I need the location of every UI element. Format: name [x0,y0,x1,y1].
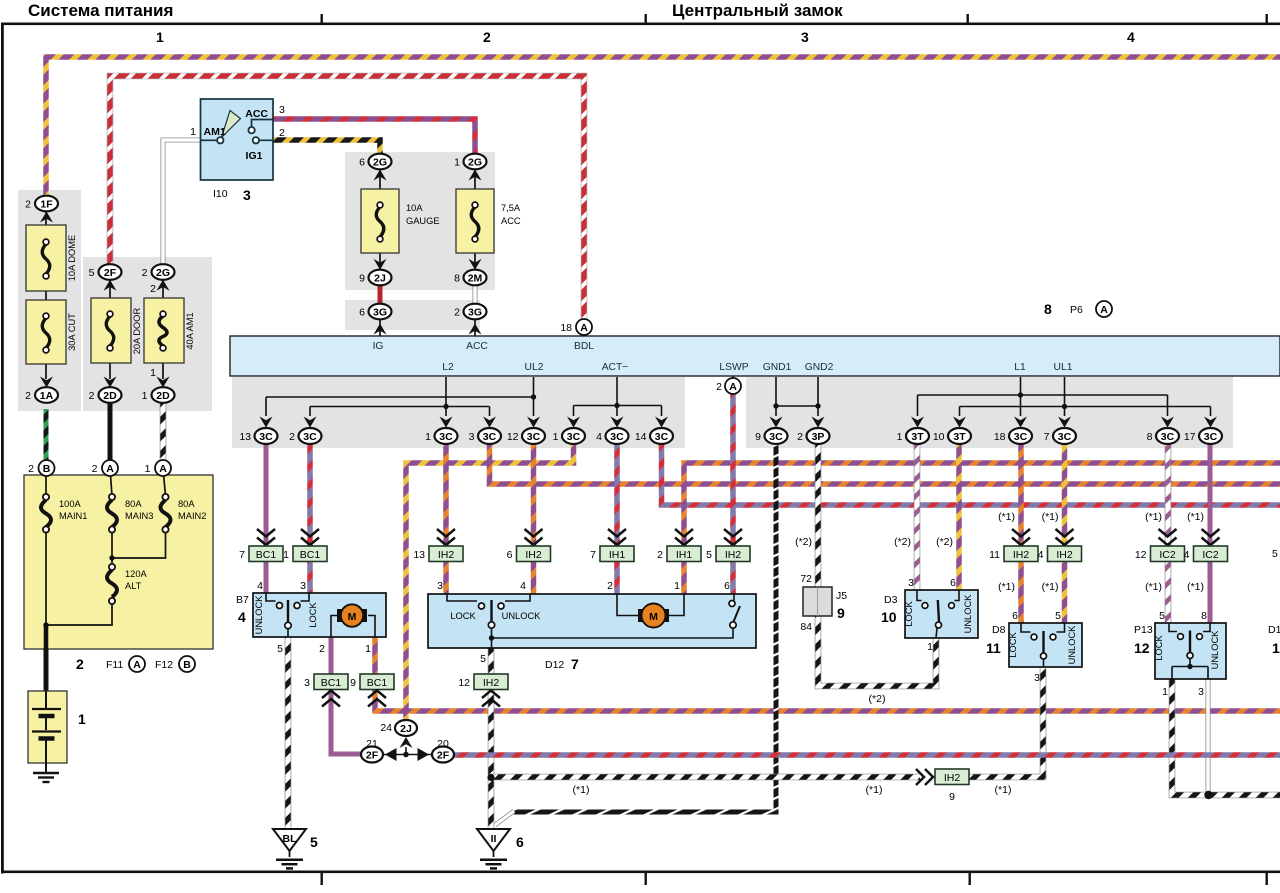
svg-text:3C: 3C [655,431,669,443]
svg-text:2G: 2G [373,156,387,168]
svg-text:4: 4 [1127,29,1135,45]
door lock assembly D12 (item 7) [428,594,756,648]
svg-text:(*1): (*1) [1187,581,1204,593]
arrow into 1F [40,212,53,223]
bus pin label GND2 [805,362,834,373]
wire L-R: 2 3C to BC1 1 to door lock pin 3 [307,444,313,593]
svg-text:20: 20 [437,738,449,750]
svg-text:IH2: IH2 [525,549,542,561]
svg-text:6: 6 [724,580,730,592]
grey panel: 3C/3T connector row right [746,377,1233,448]
wire L-R: 4 3C to IH1 7 to D12 pin 2 [614,444,620,594]
svg-text:4: 4 [257,580,263,592]
svg-text:(*1): (*1) [1187,511,1204,523]
wire V-R: ignition ACC pin3 to connector 1 2G [273,119,475,154]
svg-text:(*1): (*1) [995,784,1012,796]
svg-text:L2: L2 [442,362,454,373]
svg-text:5: 5 [277,643,283,655]
chevron below BC1 9 [368,691,386,707]
svg-text:2: 2 [289,431,295,443]
svg-text:8: 8 [1147,431,1153,443]
svg-text:3G: 3G [468,306,482,318]
svg-text:2: 2 [25,199,31,211]
connector 18 3C [994,417,1032,445]
svg-text:2: 2 [319,643,325,655]
svg-text:10: 10 [881,609,897,625]
svg-text:MAIN2: MAIN2 [178,511,206,521]
svg-text:6: 6 [359,157,365,169]
connector 2 3P [797,417,829,445]
svg-text:8: 8 [454,273,460,285]
svg-text:P6: P6 [1070,304,1083,316]
svg-text:IH1: IH1 [609,549,626,561]
connector 1 3T [897,417,929,445]
wire black: connector 2D to A [108,403,113,460]
svg-text:LOCK: LOCK [1008,632,1018,658]
note (*1) above IC2 4 [1187,511,1204,523]
section number 2 [483,29,491,45]
svg-text:1: 1 [454,157,460,169]
svg-text:(*2): (*2) [936,536,953,548]
junction dot MAIN2/MAIN3 [109,555,114,560]
wire V-O: 3 3C down then right along y=484 to page edge [490,444,1280,484]
frame top line [2,14,1280,25]
wire B-Y: ignition IG1 pin2 to connector 6 2G [273,140,380,154]
svg-text:UNLOCK: UNLOCK [1210,630,1220,670]
svg-text:3P: 3P [812,431,825,443]
svg-text:11: 11 [986,640,1001,656]
connector box 7 BC1 [239,546,283,562]
grey panel: 3G connectors [345,300,480,330]
svg-text:UL1: UL1 [1054,362,1073,373]
svg-text:A: A [729,381,737,393]
svg-text:3C: 3C [439,431,453,443]
svg-text:1: 1 [1162,686,1168,698]
connector box 5 IH2 [706,546,750,562]
connector 3 3C [469,417,501,445]
wire W-V: 8 3C to IC2 12 to P13 pin 5 [1165,444,1172,623]
fuse 120A ALT [46,564,148,625]
connector 1 A (MAIN2) [145,460,171,476]
connector box 6 IH2 [507,546,551,562]
arrow into 1A [40,377,53,388]
bus pin label ACT- [602,362,629,373]
door lock motor/switch B7 (item 4) [253,593,386,637]
svg-text:2M: 2M [468,272,483,284]
connector 7 3C [1044,417,1076,445]
door lock switch D8 (item 11) [1008,623,1082,667]
svg-text:2J: 2J [374,272,386,284]
svg-text:14: 14 [635,431,647,443]
svg-text:3C: 3C [303,431,317,443]
svg-text:Центральный замок: Центральный замок [672,1,843,20]
connector 13 3C [239,417,277,445]
D3 pin labels [881,577,956,653]
chevron into IH2 9 [916,769,933,785]
svg-text:4: 4 [1184,549,1190,561]
svg-text:I10: I10 [213,188,228,200]
svg-text:10A: 10A [406,203,423,213]
svg-text:2: 2 [92,463,98,475]
svg-text:ACT−: ACT− [602,362,629,373]
svg-text:5: 5 [1159,610,1165,622]
note (*1) above IC2 12 [1145,511,1162,523]
wire L-R: 14 3C down then right along y=505 to page edge [662,444,1280,505]
svg-text:IC2: IC2 [1202,549,1219,561]
svg-text:120A: 120A [125,569,148,579]
svg-text:9: 9 [837,605,845,621]
connector box 1 BC1 [283,546,327,562]
svg-text:3: 3 [469,431,475,443]
svg-text:BC1: BC1 [367,677,388,689]
svg-text:A: A [580,322,588,334]
chevron into IC2 12 [1159,529,1177,545]
wire V-Y: 7 3C to IH2 4 to D8 pin 5 [1062,444,1068,623]
svg-text:3C: 3C [1204,431,1218,443]
connector 1 3C (ACT-) [553,417,585,445]
note (*2) at 10 3T wire [936,536,953,548]
svg-text:3T: 3T [911,431,924,443]
svg-text:F12: F12 [155,659,173,671]
svg-text:3T: 3T [953,431,966,443]
svg-text:3C: 3C [259,431,273,443]
connector 5 2F [89,264,122,280]
svg-text:ACC: ACC [245,108,268,120]
connector box IH2 9 inline [935,769,969,803]
svg-text:4: 4 [596,431,602,443]
svg-text:13: 13 [239,431,251,443]
svg-text:6: 6 [1012,610,1018,622]
connector 2 2D [89,387,122,403]
svg-text:IH2: IH2 [944,772,961,784]
fuse 40A AM1 [144,279,195,379]
svg-text:30A CUT: 30A CUT [67,313,77,351]
svg-text:3: 3 [1034,672,1040,684]
junction dot MAIN1/ALT [43,622,48,627]
svg-text:MAIN3: MAIN3 [125,511,153,521]
connector box 9 BC1 (lower) [350,674,394,690]
wire W-B: relay J5 pin 84 to D3 pin 1 [818,616,936,686]
svg-text:5: 5 [310,834,318,850]
bus pin label BDL [574,341,594,352]
bus pin label ACC [466,341,488,352]
svg-text:1: 1 [1272,640,1280,656]
junction dot W-B ground branch [487,774,494,781]
net L2 distribution [310,377,490,416]
svg-text:1: 1 [425,431,431,443]
svg-text:ALT: ALT [125,581,142,591]
svg-text:10A DOME: 10A DOME [67,235,77,282]
svg-text:B: B [43,463,51,475]
svg-text:2: 2 [483,29,491,45]
connector 6 3G [359,304,391,320]
connector box 7 IH1 [590,546,634,562]
svg-text:17: 17 [1184,431,1196,443]
svg-text:2: 2 [76,656,84,672]
section number 1 [156,29,164,45]
connector box 4 IH2 [1038,546,1082,562]
svg-text:2: 2 [657,549,663,561]
svg-text:3: 3 [279,104,285,116]
chevron into IH2 4 [1056,529,1074,545]
svg-text:A: A [159,463,167,475]
note (*1) before IH2 9 [866,784,883,796]
svg-text:10: 10 [933,431,945,443]
wire W-B: door lock pin 5 to ground BL [285,637,292,828]
P13 pin labels [1134,610,1207,698]
svg-text:8: 8 [1044,301,1052,317]
svg-text:6: 6 [359,307,365,319]
svg-text:6: 6 [516,834,524,850]
title: central locking [672,1,843,20]
svg-text:3C: 3C [1161,431,1175,443]
ground BL (item 5) [273,829,318,868]
svg-text:BL: BL [283,833,298,845]
bus pin label UL1 [1054,362,1073,373]
svg-text:12: 12 [458,677,470,689]
svg-text:MAIN1: MAIN1 [59,511,87,521]
svg-text:1: 1 [897,431,903,443]
svg-text:3: 3 [243,187,251,203]
net UL1 distribution [960,377,1211,416]
svg-text:LSWP: LSWP [719,362,748,373]
svg-text:2G: 2G [468,156,482,168]
connector box 12 IC2 [1135,546,1185,562]
svg-text:GAUGE: GAUGE [406,216,440,226]
wire V: door lock pin 2 to BC1 3 to connector 21 2F [331,637,361,754]
svg-text:7,5A: 7,5A [501,203,521,213]
svg-text:12: 12 [507,431,519,443]
svg-text:(*1): (*1) [998,581,1015,593]
grey panel: DOOR/AM1 fuses [83,257,212,411]
svg-text:D3: D3 [884,594,898,606]
title: power system [28,1,173,20]
svg-text:3C: 3C [1058,431,1072,443]
arrow into 2D (1) [157,377,170,388]
connector 2 A (MAIN3) [92,460,118,476]
svg-text:21: 21 [366,738,378,750]
svg-text:IH2: IH2 [725,549,742,561]
connector 9 3C [755,417,787,445]
arrow into 2M [469,259,482,270]
svg-text:5: 5 [89,267,95,279]
svg-text:AM1: AM1 [204,126,226,138]
svg-text:24: 24 [380,722,392,734]
svg-text:IH2: IH2 [483,677,500,689]
svg-text:A: A [106,463,114,475]
svg-text:UL2: UL2 [525,362,544,373]
svg-text:9: 9 [359,273,365,285]
svg-text:ACC: ACC [501,216,521,226]
wire B-W: GND1 9 3C down, left along y=812, to ground II [495,444,776,825]
svg-text:M: M [348,611,357,623]
door key switch P13 (item 12) [1154,623,1226,679]
wire V-O: 1 3C to IH2 13 to D12 pin 3 [443,444,449,594]
svg-text:IG1: IG1 [246,150,263,162]
svg-text:IH1: IH1 [676,549,693,561]
ground below battery [33,763,59,782]
D12 pin labels [437,580,730,672]
fuse 10A DOME [26,211,77,379]
svg-text:13: 13 [413,549,425,561]
connector 18 A (BDL) [560,319,592,337]
wire V-O: 18 3C to IH2 11 to D8 pin 6 [1018,444,1024,623]
svg-text:1: 1 [365,643,371,655]
wire W-B: P13 pin 1 down then right along y=795 to page edge [1172,679,1280,795]
svg-text:1: 1 [283,549,289,561]
arrow into 6 2G [374,170,387,181]
label 2 F11 (A) F12 (B) [76,656,195,672]
wire white: P13 pin 3 down to junction y=795 [1206,679,1211,793]
svg-text:L1: L1 [1014,362,1026,373]
connector 24 2J [380,720,417,736]
svg-text:(*1): (*1) [1042,511,1059,523]
wire W-B: (*1) branch y=777 to connector IH2 9 and up to D8 pin 3 [491,667,1043,777]
svg-text:9: 9 [755,431,761,443]
svg-text:3: 3 [437,580,443,592]
door lock switch D3 (item 10) [904,590,978,638]
svg-text:3: 3 [801,29,809,45]
connector 6 2G [359,154,391,170]
note (*1) above IH2 11 [998,511,1015,523]
connector 2 B [28,460,54,476]
arrow into 20 2F [418,748,430,761]
net L1 distribution [918,377,1168,416]
svg-text:5: 5 [1272,548,1278,560]
svg-text:UNLOCK: UNLOCK [502,611,542,621]
svg-text:12: 12 [1135,549,1147,561]
svg-text:2: 2 [25,390,31,402]
arrow into 2J [374,259,387,270]
fuse 20A DOOR [91,279,142,379]
junction dot L2/y406 [443,404,448,409]
svg-text:A: A [133,659,141,671]
B7 pin labels [236,580,371,655]
chevron below BC1 3 [322,691,340,707]
wire thick black: junction to battery [44,626,49,691]
junction dot UL1 [1062,404,1067,409]
note (*1) below IC2 12 [1145,581,1162,593]
net GND1/GND2 distribution [776,377,818,416]
arrow into 1 2G [469,170,482,181]
svg-text:7: 7 [239,549,245,561]
connector 8 2M [454,270,486,286]
svg-text:2: 2 [142,267,148,279]
connector box 11 IH2 [989,546,1038,562]
junction dot L1 [1018,392,1023,397]
wire G-B: fuse 1A to connector B (green/black) [44,409,49,460]
main fuse box (item 2) [24,475,213,649]
svg-text:LOCK: LOCK [904,601,914,627]
wire W-B: D12 pin 5 down to ground II [488,648,495,828]
partial labels of next component at page edge [1268,548,1280,656]
wire V-Y: 10 3T to D3 pin 6 [956,444,962,590]
svg-text:(*2): (*2) [795,536,812,548]
section number 3 [801,29,809,45]
svg-text:8: 8 [1201,610,1207,622]
svg-text:BC1: BC1 [256,549,277,561]
frame left border [1,23,4,874]
arrow into 2D (2) [104,377,117,388]
connector 12 3C [507,417,545,445]
svg-text:2J: 2J [400,723,412,735]
svg-text:F11: F11 [106,659,123,671]
net ACT- distribution [574,377,662,416]
svg-text:1: 1 [150,367,156,379]
svg-text:2: 2 [797,431,803,443]
grey panel: DOME/CUT fuses [18,190,81,411]
svg-text:1: 1 [190,126,196,138]
bus pin label L1 [1014,362,1026,373]
svg-text:2: 2 [89,390,95,402]
connector 20 2F [432,738,454,763]
grey panel: 3C connector row left [232,377,685,448]
svg-text:80A: 80A [125,499,142,509]
arrow 3G-ACC into bus [469,324,482,335]
note (*1) below IC2 4 [1187,581,1204,593]
svg-text:GND1: GND1 [763,362,792,373]
svg-text:II: II [491,833,497,845]
svg-text:72: 72 [800,573,812,585]
bus pin label UL2 [525,362,544,373]
svg-text:7: 7 [590,549,596,561]
svg-text:18: 18 [994,431,1006,443]
chevron into IH1 2 [675,529,693,545]
link line between 2F connectors [383,754,432,756]
svg-text:IH2: IH2 [1013,549,1030,561]
svg-text:3C: 3C [769,431,783,443]
svg-text:3: 3 [300,580,306,592]
section number 4 [1127,29,1135,45]
svg-text:1: 1 [553,431,559,443]
chevron below IH2 12 [482,691,500,707]
arrow into 2G left [157,280,170,291]
note (*1) after IH2 9 [995,784,1012,796]
connector 10 3T [933,417,971,445]
svg-text:2F: 2F [437,749,450,761]
svg-text:UNLOCK: UNLOCK [963,594,973,634]
svg-text:7: 7 [571,656,579,672]
svg-text:40A AM1: 40A AM1 [185,312,195,349]
svg-text:BDL: BDL [574,341,594,352]
svg-text:M: M [649,611,658,623]
wire V-O: 12 3C to IH2 6 to D12 pin 4 [531,444,537,594]
connector box 12 IH2 (lower) [458,674,508,690]
svg-text:1: 1 [156,29,164,45]
connector 2 1A [25,387,58,403]
svg-text:2F: 2F [366,749,379,761]
D8 pin labels [986,610,1061,684]
svg-text:3C: 3C [610,431,624,443]
note (*1) on ground branch left [573,784,590,796]
wire white: ignition AM1 pin1 to connector 2 2G [163,140,200,265]
connector 4 3C [596,417,628,445]
arrow up into 2J [400,737,413,755]
connector 1 2D [142,387,175,403]
fuse 10A GAUGE [361,169,440,270]
svg-text:A: A [1100,304,1108,316]
svg-text:(*1): (*1) [998,511,1015,523]
svg-text:GND2: GND2 [805,362,834,373]
svg-text:(*1): (*1) [1145,511,1162,523]
svg-text:2: 2 [607,580,613,592]
junction dot at 2F link [403,752,409,758]
svg-text:IH2: IH2 [438,549,455,561]
svg-text:5: 5 [480,653,486,665]
wire L-R: connector 20 2F right along y=755 to page edge [454,752,1280,758]
note (*1) below IH2 11 [998,581,1015,593]
fuse 80A MAIN3 [107,468,153,565]
